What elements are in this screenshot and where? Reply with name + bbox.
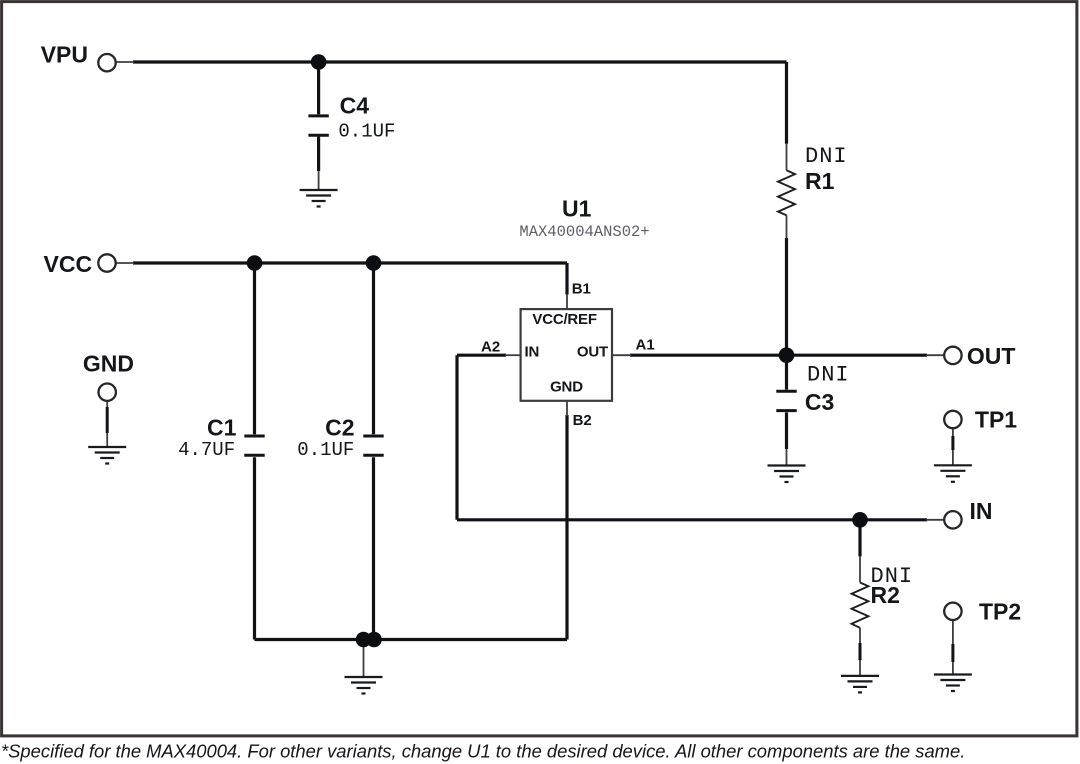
svg-text:IN: IN (970, 498, 993, 524)
svg-text:TP2: TP2 (979, 599, 1021, 625)
svg-text:4.7UF: 4.7UF (178, 439, 235, 461)
svg-text:DNI: DNI (871, 564, 914, 589)
svg-text:0.1UF: 0.1UF (338, 121, 395, 143)
svg-text:MAX40004ANS02+: MAX40004ANS02+ (519, 223, 649, 241)
svg-text:C4: C4 (340, 93, 370, 119)
svg-text:VCC/REF: VCC/REF (532, 311, 596, 328)
svg-text:IN: IN (525, 344, 540, 361)
svg-text:A1: A1 (636, 337, 655, 354)
svg-text:C3: C3 (805, 389, 834, 415)
svg-text:B1: B1 (572, 281, 591, 298)
svg-text:OUT: OUT (967, 343, 1016, 369)
svg-text:OUT: OUT (577, 344, 608, 361)
svg-text:U1: U1 (562, 196, 592, 222)
svg-text:DNI: DNI (807, 363, 850, 388)
svg-text:DNI: DNI (805, 144, 848, 169)
svg-text:R1: R1 (805, 168, 835, 194)
svg-text:A2: A2 (481, 339, 500, 356)
svg-text:*Specified for the MAX40004. F: *Specified for the MAX40004. For other v… (1, 741, 965, 762)
svg-text:TP1: TP1 (975, 407, 1017, 433)
svg-text:C2: C2 (325, 415, 354, 441)
svg-text:GND: GND (83, 351, 134, 377)
svg-text:GND: GND (550, 379, 583, 396)
svg-text:VCC: VCC (44, 251, 93, 277)
svg-text:0.1UF: 0.1UF (297, 439, 354, 461)
svg-text:VPU: VPU (41, 42, 88, 68)
svg-text:B2: B2 (573, 412, 592, 429)
svg-text:C1: C1 (207, 415, 237, 441)
